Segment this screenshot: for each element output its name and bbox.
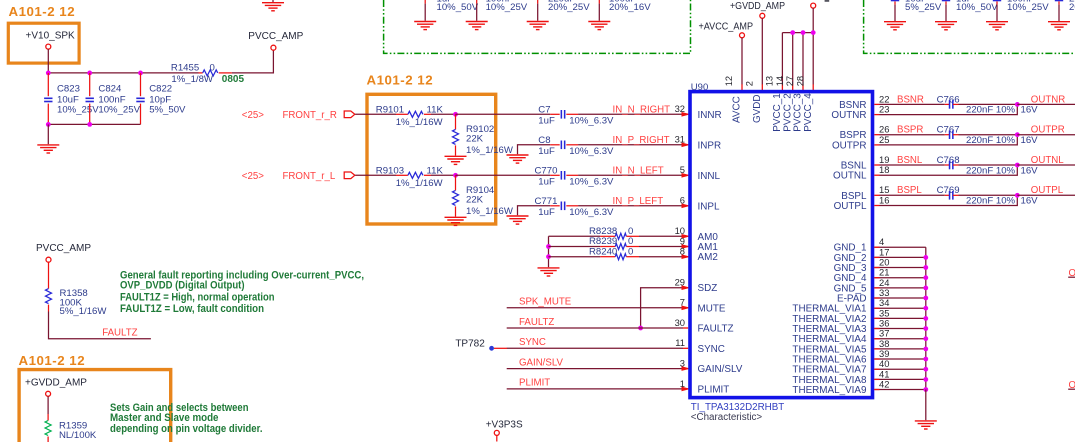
svg-text:2: 2	[743, 81, 754, 86]
pin stub 31	[683, 144, 688, 146]
resistor R8239 0 ohm	[549, 246, 601, 248]
pin stub 5	[683, 174, 688, 176]
svg-text:C7: C7	[538, 104, 550, 115]
svg-text:INNR: INNR	[698, 110, 722, 121]
pin 13 stub	[781, 84, 783, 90]
svg-text:16V: 16V	[1021, 196, 1039, 207]
wire R8238 to U90	[639, 235, 683, 237]
wire +V3P3S stub	[496, 435, 498, 441]
svg-text:16V: 16V	[1021, 105, 1039, 116]
svg-text:10%_25V: 10%_25V	[57, 105, 99, 116]
svg-text:C8: C8	[538, 135, 550, 146]
svg-text:IN_P_RIGHT: IN_P_RIGHT	[613, 135, 670, 146]
wire BSPR to C767	[880, 134, 945, 136]
pin stub 29	[683, 287, 688, 289]
wire pin 39 to GND bus	[874, 358, 926, 360]
junction OUTPL	[1015, 193, 1020, 198]
pin stub 17	[874, 256, 879, 258]
pin 14 stub	[792, 84, 794, 90]
pin stub 1	[683, 388, 688, 390]
svg-text:R8240: R8240	[589, 246, 617, 257]
junction GND bus 38	[923, 347, 928, 352]
junction OUTNL	[1015, 163, 1020, 168]
junction GND bus 35	[923, 316, 928, 321]
junction GND bus 40	[923, 367, 928, 372]
pin stub 21	[874, 277, 879, 279]
svg-text:INNL: INNL	[698, 171, 721, 182]
resistor R9104 22K	[455, 175, 457, 190]
wire GND bus vertical	[925, 247, 927, 389]
svg-text:OUTNL: OUTNL	[833, 171, 867, 182]
ground return for C771	[518, 206, 551, 216]
capacitor (cut off) 10%_50V left group	[424, 0, 426, 4]
pin 28 stub	[812, 84, 814, 90]
junction SDZ/FAULTZ	[638, 326, 643, 331]
wire SDZ to FAULTZ tie	[641, 288, 683, 328]
junction at C823 top	[46, 71, 51, 76]
wire OUTNR from pin 23	[880, 104, 1018, 114]
pin stub 36	[874, 328, 879, 330]
ground AM select bus	[538, 268, 560, 276]
wire pin 17 to GND bus	[874, 256, 926, 258]
wire FRONT_r_L to R9103	[355, 174, 396, 176]
wire divider to C7	[456, 113, 551, 115]
op-amp U90 TPA3132D2 body	[690, 92, 873, 398]
ground R9102	[445, 156, 467, 164]
svg-text:1uF: 1uF	[538, 176, 555, 187]
wire stub above top ground	[272, 0, 274, 3]
svg-text:FAULTZ: FAULTZ	[519, 317, 554, 328]
resistor R9102 22K	[455, 114, 457, 129]
svg-text:C823: C823	[57, 84, 80, 95]
svg-text:11: 11	[675, 337, 685, 348]
svg-text:10%_6.3V: 10%_6.3V	[569, 115, 614, 126]
wire +V10_SPK down to bus	[47, 49, 49, 73]
svg-text:+AVCC_AMP: +AVCC_AMP	[699, 21, 754, 32]
wire IN_P_LEFT to U90	[578, 205, 683, 207]
junction PVCC_2	[790, 30, 795, 35]
svg-text:C767: C767	[937, 125, 960, 136]
svg-text:NL/100K: NL/100K	[59, 430, 97, 441]
resistor R1359 NL/100K (green, not loaded)	[47, 396, 49, 414]
junction GND bus 41	[923, 377, 928, 382]
wire BSNL to C768	[880, 164, 945, 166]
wire IN_N_LEFT to U90	[578, 174, 683, 176]
svg-text:SDZ: SDZ	[698, 283, 718, 294]
wire pin 38 to GND bus	[874, 348, 926, 350]
svg-text:FAULT1Z = Low, fault condition: FAULT1Z = Low, fault condition	[120, 303, 264, 315]
svg-text:30: 30	[675, 317, 685, 328]
svg-text:OUTPL: OUTPL	[1031, 185, 1064, 196]
junction at C824 top	[87, 71, 92, 76]
wire PVCC_4 drop	[812, 33, 814, 85]
wire pin 35 to GND bus	[874, 317, 926, 319]
svg-text:MUTE: MUTE	[698, 303, 726, 314]
svg-text:BSNL: BSNL	[897, 155, 923, 166]
svg-text:OUTPR: OUTPR	[1031, 125, 1065, 136]
pin stub 9	[683, 246, 688, 248]
pin 12 stub AVCC	[741, 84, 743, 90]
svg-text:220uF: 220uF	[548, 0, 575, 5]
wire R9101 to junction	[431, 113, 456, 115]
svg-text:18: 18	[879, 164, 889, 175]
svg-text:FAULTZ: FAULTZ	[102, 328, 137, 339]
pin stub 4	[874, 246, 879, 248]
svg-text:PLIMIT: PLIMIT	[519, 378, 550, 389]
wire C769 to junction	[959, 194, 1018, 196]
svg-text:1uF: 1uF	[538, 115, 555, 126]
svg-text:BSNR: BSNR	[897, 94, 924, 105]
svg-text:C769: C769	[937, 185, 960, 196]
capacitor C770 1uF	[550, 174, 560, 176]
wire PVCC tie bus	[782, 32, 813, 34]
svg-text:AVCC: AVCC	[732, 96, 743, 123]
pin stub 16	[874, 205, 879, 207]
svg-text:10%_25V: 10%_25V	[98, 105, 140, 116]
junction PVCC_4	[811, 30, 816, 35]
wire cut (right edge, upper)	[1068, 276, 1075, 278]
capacitor (cut off) 20%_16V left group	[598, 0, 600, 4]
wire OUTNR out	[1017, 103, 1075, 105]
wire R8240 to U90	[639, 256, 683, 258]
junction FRONT_r_L divider	[453, 173, 458, 178]
pin stub 33	[874, 297, 879, 299]
svg-text:1uF: 1uF	[437, 0, 454, 5]
capacitor C8 1uF	[550, 144, 560, 146]
capacitor (cut off) 10%_25V right group	[993, 0, 1001, 2]
wire IN_N_RIGHT to U90	[578, 113, 683, 115]
svg-text:FRONT_r_L: FRONT_r_L	[283, 171, 336, 182]
svg-text:IN_P_LEFT: IN_P_LEFT	[613, 196, 664, 207]
capacitor C771 1uF	[550, 205, 560, 207]
svg-text:100uF: 100uF	[609, 0, 636, 5]
wire pin 33 to GND bus	[874, 297, 926, 299]
pin stub 22	[874, 103, 879, 105]
wire R8239 to U90	[639, 246, 683, 248]
svg-text:OVP_DVDD (Digital Output): OVP_DVDD (Digital Output)	[120, 279, 245, 291]
wire BSNR to C766	[880, 103, 945, 105]
capacitor (cut off) 20%_16V right group	[1055, 0, 1063, 2]
junction OUTNR	[1015, 102, 1020, 107]
svg-text:AM2: AM2	[698, 252, 718, 263]
junction GND bus 36	[923, 326, 928, 331]
svg-text:SPK_MUTE: SPK_MUTE	[519, 297, 572, 308]
wire divider to C770	[456, 174, 551, 176]
wire GND bus pin 4 top	[874, 246, 926, 248]
svg-text:<25>: <25>	[242, 171, 264, 182]
svg-text:OUTNR: OUTNR	[1031, 94, 1065, 105]
svg-text:A101-2 12: A101-2 12	[9, 4, 76, 19]
svg-text:22K: 22K	[466, 134, 484, 145]
pin stub 11	[683, 347, 688, 349]
wire IN_P_RIGHT to U90	[578, 144, 683, 146]
svg-text:100nF: 100nF	[486, 0, 513, 5]
svg-text:GAIN/SLV: GAIN/SLV	[698, 364, 743, 375]
capacitor (cut off) 10%_50V right group	[942, 0, 950, 2]
wire R1358 to FAULTZ	[49, 312, 151, 339]
wire cut (right edge, lower)	[1068, 388, 1075, 390]
pin 2 stub GVDD	[761, 84, 763, 90]
ground return for C8	[518, 145, 551, 155]
pin stub 24	[874, 287, 879, 289]
capacitor (cut off) 5%_25V right group	[891, 0, 899, 2]
decoupling group box (green dash-dot, left)	[384, 0, 691, 53]
wire GVDD rail	[761, 18, 763, 84]
svg-text:C824: C824	[98, 84, 122, 95]
svg-text:INPR: INPR	[698, 140, 722, 151]
wire OUTNL out	[1017, 164, 1075, 166]
wire OUTPL from pin 16	[880, 195, 1018, 205]
svg-text:1uF: 1uF	[956, 0, 973, 5]
input divider box (orange)	[367, 94, 496, 224]
svg-text:A101-2 12: A101-2 12	[367, 73, 434, 88]
pin stub 39	[874, 358, 879, 360]
svg-text:10%_6.3V: 10%_6.3V	[569, 176, 614, 187]
svg-text:OUTNL: OUTNL	[1031, 155, 1064, 166]
wire C768 to junction	[959, 164, 1018, 166]
junction FRONT_r_R divider	[453, 112, 458, 117]
junction GND bus 20	[923, 265, 928, 270]
wire PVCC_1 drop	[781, 33, 783, 85]
junction GND bus 42	[923, 387, 928, 392]
wire R1455 to PVCC_AMP	[232, 50, 274, 73]
wire OUTNL from pin 18	[880, 165, 1018, 175]
svg-text:+GVDD_AMP: +GVDD_AMP	[25, 378, 87, 389]
junction PVCC_3	[801, 30, 806, 35]
pin stub 18	[874, 174, 879, 176]
wire GAIN/SLV	[507, 368, 683, 370]
svg-text:1uF: 1uF	[538, 146, 555, 157]
pin stub 30	[683, 327, 688, 329]
svg-text:C766: C766	[937, 94, 960, 105]
svg-text:16: 16	[879, 194, 889, 205]
wire bottom bus of C823/C824/C822	[48, 123, 140, 125]
svg-text:28: 28	[794, 76, 805, 86]
junction AM bus R8239	[546, 244, 551, 249]
svg-text:FAULT1Z = High, normal operati: FAULT1Z = High, normal operation	[120, 292, 275, 304]
wire pin 34 to GND bus	[874, 307, 926, 309]
pin stub 34	[874, 307, 879, 309]
svg-text:10%_6.3V: 10%_6.3V	[569, 207, 614, 218]
wire AVCC rail	[741, 38, 743, 85]
wire OUTPR out	[1017, 134, 1075, 136]
pin stub 23	[874, 114, 879, 116]
svg-text:<25>: <25>	[242, 110, 264, 121]
partial text fragment (cut off)	[825, 0, 830, 2]
wire SPK_MUTE	[507, 307, 683, 309]
ground (top center, cut off)	[262, 3, 284, 11]
svg-text:<Characteristic>: <Characteristic>	[691, 412, 763, 423]
svg-text:OUTPL: OUTPL	[834, 201, 867, 212]
svg-text:22K: 22K	[466, 195, 484, 206]
svg-text:220uF: 220uF	[1069, 0, 1075, 5]
pin stub 35	[874, 317, 879, 319]
capacitor C824 100nF	[89, 73, 91, 96]
svg-text:IN_N_LEFT: IN_N_LEFT	[613, 165, 664, 176]
svg-text:16V: 16V	[1021, 135, 1039, 146]
wire FRONT_r_R to R9101	[355, 113, 396, 115]
pin stub 7	[683, 307, 688, 309]
wire GND bus to ground	[925, 390, 927, 421]
wire pin 42 to GND bus	[874, 389, 926, 391]
pin stub 42	[874, 389, 879, 391]
svg-text:TP782: TP782	[455, 339, 485, 350]
svg-text:depending on pin voltage divid: depending on pin voltage divider.	[110, 423, 263, 435]
capacitor C7 1uF	[550, 113, 560, 115]
ground (speaker supply filter)	[37, 145, 59, 153]
svg-text:0: 0	[210, 62, 215, 73]
svg-text:12: 12	[723, 76, 734, 86]
svg-text:1%_1/16W: 1%_1/16W	[396, 178, 444, 189]
port symbol FRONT_r_R	[344, 111, 355, 118]
svg-text:0805: 0805	[222, 74, 245, 85]
page connector box (orange, +V10_SPK)	[8, 23, 79, 63]
wire C767 to junction	[959, 134, 1018, 136]
junction GND bus 21	[923, 275, 928, 280]
pin stub 6	[683, 205, 688, 207]
svg-text:5%_1/16W: 5%_1/16W	[60, 306, 108, 317]
junction at C824 bottom	[87, 122, 92, 127]
junction GND bus 34	[923, 306, 928, 311]
wire PVCC_3 drop	[802, 33, 804, 85]
wire pin 37 to GND bus	[874, 338, 926, 340]
svg-text:1%_1/8W: 1%_1/8W	[171, 74, 214, 85]
pin stub 19	[874, 164, 879, 166]
wire pin 24 to GND bus	[874, 287, 926, 289]
svg-text:IN_N_RIGHT: IN_N_RIGHT	[613, 104, 671, 115]
wire BSPL to C769	[880, 194, 945, 196]
svg-text:10%_6.3V: 10%_6.3V	[569, 146, 614, 157]
pin stub 10	[683, 235, 688, 237]
svg-text:100nF: 100nF	[1007, 0, 1034, 5]
wire TP782 stub	[494, 347, 507, 349]
wire PLIMIT	[507, 388, 683, 390]
junction GND bus 24	[923, 286, 928, 291]
wire pin 20 to GND bus	[874, 267, 926, 269]
wire to ground below C823	[47, 124, 49, 144]
svg-text:0: 0	[628, 246, 633, 257]
svg-text:C822: C822	[149, 84, 172, 95]
wire PVCC riser from circle	[812, 8, 814, 32]
svg-text:+V10_SPK: +V10_SPK	[26, 31, 76, 42]
junction at C823 bottom	[46, 122, 51, 127]
pin stub 8	[683, 256, 688, 258]
wire top bus V10_SPK	[48, 72, 198, 74]
capacitor (cut off) 10%_25V left group	[476, 0, 478, 4]
svg-text:C771: C771	[535, 196, 558, 207]
pin stub 15	[874, 194, 879, 196]
decoupling group box (green dash-dot, right)	[864, 0, 1075, 53]
svg-text:23: 23	[879, 104, 889, 115]
svg-text:FAULTZ: FAULTZ	[698, 324, 734, 335]
svg-text:R1455: R1455	[171, 62, 199, 73]
wire C766 to junction	[959, 103, 1018, 105]
svg-text:FRONT_r_R: FRONT_r_R	[283, 110, 337, 121]
pin stub 25	[874, 144, 879, 146]
svg-text:INPL: INPL	[698, 201, 720, 212]
svg-text:1uF: 1uF	[538, 207, 555, 218]
pin stub 40	[874, 368, 879, 370]
svg-text:+GVDD_AMP: +GVDD_AMP	[730, 1, 785, 12]
capacitor (cut off) 20%_25V left group	[537, 0, 539, 4]
svg-text:PVCC_AMP: PVCC_AMP	[36, 243, 91, 254]
svg-text:42: 42	[879, 378, 889, 389]
svg-text:BSPL: BSPL	[897, 185, 922, 196]
svg-text:PVCC_4: PVCC_4	[803, 93, 814, 132]
svg-text:C768: C768	[937, 155, 960, 166]
svg-text:10uF: 10uF	[905, 0, 927, 5]
svg-text:BSPR: BSPR	[897, 125, 923, 136]
svg-text:SYNC: SYNC	[698, 344, 725, 355]
svg-text:GAIN/SLV: GAIN/SLV	[519, 357, 564, 368]
junction GND bus 17	[923, 255, 928, 260]
junction AM bus R8240	[546, 254, 551, 259]
junction OUTPR	[1015, 132, 1020, 137]
pin stub 38	[874, 348, 879, 350]
junction GND bus 37	[923, 336, 928, 341]
pin stub 20	[874, 267, 879, 269]
wire pin 21 to GND bus	[874, 277, 926, 279]
svg-text:PLIMIT: PLIMIT	[698, 384, 730, 395]
ground (U90 GND/thermal)	[915, 421, 937, 429]
svg-text:OUTPR: OUTPR	[832, 140, 867, 151]
gain select box (orange, cut off)	[19, 370, 171, 442]
svg-text:SYNC: SYNC	[519, 337, 546, 348]
junction GND bus 33	[923, 296, 928, 301]
pin stub 32	[683, 113, 688, 115]
junction at C822 top	[138, 71, 143, 76]
power symbol PVCC (top right, cut)	[811, 3, 816, 8]
svg-text:1%_1/16W: 1%_1/16W	[396, 117, 444, 128]
svg-text:16V: 16V	[1021, 165, 1039, 176]
wire pin 36 to GND bus	[874, 328, 926, 330]
resistor R8238 0 ohm	[549, 235, 601, 237]
resistor R1358 100K	[48, 262, 50, 288]
wire OUTPL out	[1017, 194, 1075, 196]
capacitor C822 10pF	[140, 73, 142, 96]
svg-text:C770: C770	[535, 165, 558, 176]
junction GND bus 39	[923, 357, 928, 362]
ground R9104	[445, 217, 467, 225]
pin stub 41	[874, 378, 879, 380]
pin stub 3	[683, 368, 688, 370]
svg-text:PVCC_AMP: PVCC_AMP	[248, 31, 303, 42]
svg-text:A101-2 12: A101-2 12	[19, 353, 86, 368]
svg-text:5%_50V: 5%_50V	[149, 105, 186, 116]
svg-text:U90: U90	[691, 82, 708, 93]
pin stub 37	[874, 338, 879, 340]
svg-text:+V3P3S: +V3P3S	[486, 419, 523, 430]
wire PVCC_2 drop	[792, 33, 794, 85]
port symbol FRONT_r_L	[344, 172, 355, 179]
wire SYNC	[507, 347, 683, 349]
svg-text:THERMAL_VIA9: THERMAL_VIA9	[792, 385, 867, 396]
wire pin 40 to GND bus	[874, 368, 926, 370]
wire FAULTZ	[507, 327, 683, 329]
svg-text:25: 25	[879, 134, 889, 145]
wire AM select bus vertical	[548, 236, 550, 267]
wire R9103 to junction	[431, 174, 456, 176]
capacitor C823 10uF	[47, 73, 49, 96]
resistor R8240 0 ohm	[549, 256, 601, 258]
pin 27 stub	[802, 84, 804, 90]
svg-text:OUTNR: OUTNR	[831, 110, 866, 121]
svg-text:GVDD: GVDD	[752, 94, 763, 123]
wire OUTPR from pin 25	[880, 135, 1018, 145]
wire pin 41 to GND bus	[874, 378, 926, 380]
pin stub 26	[874, 134, 879, 136]
